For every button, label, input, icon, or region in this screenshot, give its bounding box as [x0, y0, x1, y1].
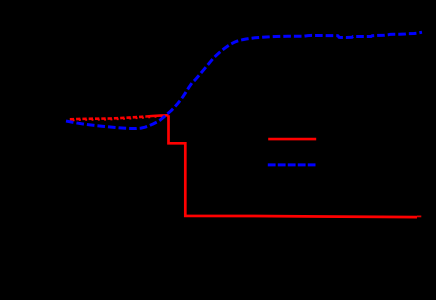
- legend blue dashed line sample: [268, 163, 316, 166]
- red solid curve main drops and bottom level: [169, 115, 418, 217]
- legend red line sample: [268, 138, 316, 141]
- red solid curve left section (dotted staircase look): [70, 117, 146, 120]
- red curve staircase riser ticks: [74, 116, 162, 122]
- red curve final short step segment: [417, 215, 421, 217]
- blue dashed curve (series 2): [66, 32, 422, 128]
- red solid curve pre-drop segment: [146, 115, 169, 116]
